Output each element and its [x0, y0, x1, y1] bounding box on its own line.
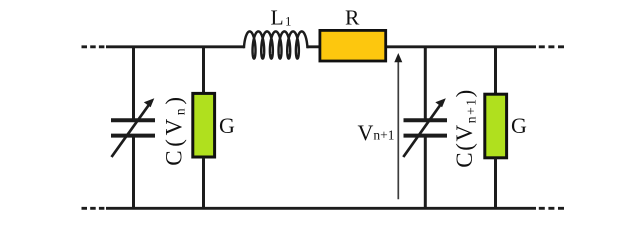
wire lead top of C(Vn+1): [424, 47, 427, 119]
capacitor C(Vn+1) variable varactor symbol: [403, 47, 447, 209]
wire lead bottom of right G: [494, 158, 497, 208]
wire top bus left segment: [106, 45, 244, 48]
resistor-box G left (green): [193, 93, 215, 157]
svg-text:C(Vn): C(Vn): [161, 93, 187, 166]
capacitor C(Vn) variable varactor symbol: [111, 47, 155, 209]
C(Vn+1) variable arrow head: [435, 98, 446, 107]
wire lead top of C(Vn): [132, 47, 135, 119]
svg-text:Vn+1: Vn+1: [358, 120, 395, 145]
C(Vn+1) top plate: [404, 118, 448, 122]
resistor-box G right (green): [485, 94, 507, 158]
svg-text:G: G: [219, 113, 235, 138]
svg-text:G: G: [511, 113, 527, 138]
wire lead top of right G: [494, 47, 497, 94]
wire bottom bus: [106, 207, 536, 210]
C(Vn) variable arrow head: [144, 98, 155, 107]
wire top-right dashed continuation: [539, 45, 565, 48]
inductor L1 coil: [244, 31, 307, 58]
C(Vn+1) bottom plate: [404, 134, 448, 138]
C(Vn) variable arrow shaft: [112, 104, 150, 157]
wire bottom-right dashed continuation: [539, 207, 565, 210]
wire bottom-left dashed continuation: [82, 207, 106, 210]
svg-text:C(Vn+1): C(Vn+1): [452, 88, 478, 168]
C(Vn) bottom plate: [111, 134, 155, 138]
svg-text:R: R: [345, 6, 360, 30]
C(Vn+1) variable arrow shaft: [403, 104, 441, 157]
wire lead bottom of C(Vn): [132, 137, 135, 208]
resistor R (orange box): [320, 30, 386, 61]
wire lead bottom of left G: [202, 158, 205, 209]
conductance G left branch: [193, 47, 215, 209]
voltage arrow Vn+1 shaft: [397, 61, 399, 199]
C(Vn) top plate: [111, 118, 155, 122]
wire lead bottom of C(Vn+1): [424, 137, 427, 208]
voltage arrow Vn+1 head: [394, 53, 402, 62]
wire top-left dashed continuation: [82, 45, 106, 48]
wire lead top of left G: [202, 47, 205, 93]
wire top bus right segment: [307, 45, 536, 48]
svg-text:L1: L1: [271, 6, 292, 30]
conductance G right branch: [485, 47, 507, 209]
